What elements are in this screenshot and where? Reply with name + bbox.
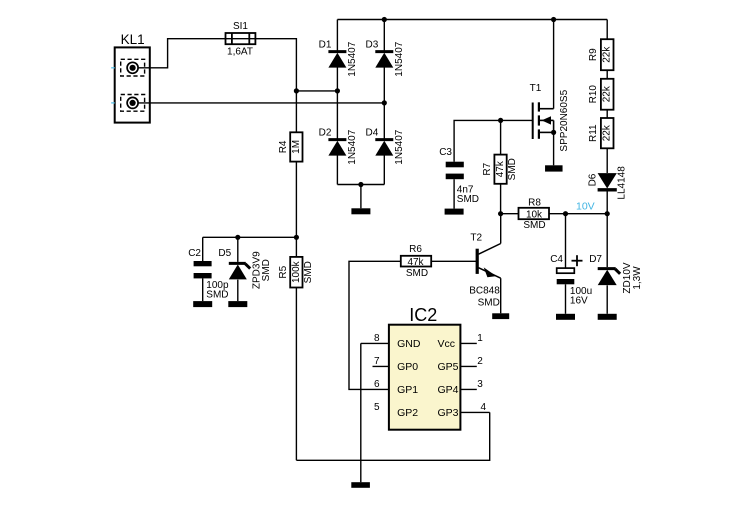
svg-text:2: 2 <box>477 356 483 367</box>
KL1 pin 1 pad <box>121 59 145 76</box>
mosfet T1 <box>532 103 534 140</box>
svg-text:1,6AT: 1,6AT <box>227 47 253 58</box>
wire bridge to ground <box>360 185 362 209</box>
svg-text:SMD: SMD <box>406 268 428 279</box>
KL1 pin 2 pad <box>121 95 145 112</box>
diode D3 <box>383 20 385 52</box>
wire node B to C2/D5 <box>203 236 297 238</box>
svg-text:Vcc: Vcc <box>438 338 456 350</box>
svg-text:R7: R7 <box>482 162 493 175</box>
svg-text:SMD: SMD <box>523 220 545 231</box>
wire node A to D1-D2 <box>296 90 337 92</box>
wire T1 drain to rail <box>553 20 555 109</box>
wire R4 to node B <box>295 162 297 238</box>
svg-text:SMD: SMD <box>457 194 479 205</box>
wire gate net <box>454 120 533 161</box>
svg-text:R6: R6 <box>409 244 422 255</box>
IC IC2 body <box>389 325 461 430</box>
ground bridge <box>351 208 370 214</box>
zener diode D7 <box>606 214 608 267</box>
svg-text:SMD: SMD <box>507 158 518 180</box>
capacitor C2 <box>202 237 204 261</box>
svg-text:5: 5 <box>374 402 380 413</box>
junction 10V/D6/D7 <box>605 211 610 216</box>
wire T1 source to ground <box>553 132 555 165</box>
resistor R6 <box>401 256 431 267</box>
svg-text:IC2: IC2 <box>409 305 437 325</box>
wire R6 to GP1 <box>349 261 401 389</box>
svg-text:GP4: GP4 <box>438 384 459 396</box>
svg-text:D4: D4 <box>366 128 379 139</box>
svg-text:KL1: KL1 <box>121 32 145 47</box>
svg-text:22k: 22k <box>602 46 613 63</box>
resistor R7 <box>500 120 502 154</box>
resistor R5 <box>295 237 297 257</box>
svg-text:1,3W: 1,3W <box>632 266 643 290</box>
diode D6 <box>598 188 617 191</box>
ground T2 emitter <box>492 313 509 319</box>
junction top rail / D3 <box>382 17 387 22</box>
svg-text:8: 8 <box>374 333 380 344</box>
svg-text:LL4148: LL4148 <box>617 166 628 200</box>
svg-text:6: 6 <box>374 379 380 390</box>
svg-text:1: 1 <box>477 333 483 344</box>
svg-text:T1: T1 <box>530 83 542 94</box>
svg-text:R4: R4 <box>278 140 289 153</box>
wire bridge bottom <box>337 184 384 186</box>
node B junction (R4/R5/C2) <box>294 235 299 240</box>
svg-text:R5: R5 <box>278 265 289 278</box>
svg-text:D3: D3 <box>366 40 379 51</box>
wire KL1 pin2 to bridge <box>138 102 384 104</box>
svg-text:SMD: SMD <box>303 261 314 283</box>
wire R10-R11 <box>606 110 608 118</box>
junction C4 top <box>563 211 568 216</box>
svg-text:1M: 1M <box>291 140 302 154</box>
wire KL1 pin1 to fuse <box>138 39 225 68</box>
junction bridge bottom <box>358 182 363 187</box>
IC2 pin 2 GP5 <box>460 365 476 367</box>
transistor T2 <box>476 249 479 274</box>
svg-text:BC848: BC848 <box>469 286 500 297</box>
svg-text:D5: D5 <box>218 248 231 259</box>
wire R7 to R8 <box>501 213 519 215</box>
svg-text:D2: D2 <box>319 128 332 139</box>
zener diode D5 <box>237 237 239 262</box>
diode D1 <box>336 20 338 52</box>
svg-text:T2: T2 <box>470 232 482 243</box>
ground C4 <box>556 314 575 320</box>
capacitor C3 <box>446 162 464 168</box>
svg-text:D1: D1 <box>319 40 332 51</box>
svg-text:R10: R10 <box>588 85 599 104</box>
svg-text:47k: 47k <box>495 160 506 177</box>
svg-text:GP5: GP5 <box>438 361 459 373</box>
ground C3 <box>445 209 464 215</box>
IC2 pin 4 GP3 <box>460 411 489 413</box>
wire T2 collector <box>500 214 502 244</box>
svg-text:C2: C2 <box>188 248 201 259</box>
IC2 pin 8 GND <box>361 342 389 344</box>
node A junction (fuse/R4/bridge) <box>294 88 299 93</box>
svg-text:10k: 10k <box>526 209 543 220</box>
junction D5 top <box>235 235 240 240</box>
svg-text:C3: C3 <box>439 147 452 158</box>
svg-text:R8: R8 <box>528 197 541 208</box>
resistor R10 <box>601 79 614 110</box>
wire R5 to GP3 net <box>295 288 297 461</box>
KL1 cyan pin ticks <box>111 67 115 69</box>
wire node A down to R4 <box>295 91 297 132</box>
svg-text:10V: 10V <box>576 201 595 213</box>
svg-text:GP3: GP3 <box>438 407 459 419</box>
ground T1 source <box>545 165 563 171</box>
wire R8 to 10V node <box>549 213 607 215</box>
svg-text:1N5407: 1N5407 <box>347 41 358 76</box>
junction D1-D2 midpoint <box>335 88 340 93</box>
svg-text:7: 7 <box>374 356 380 367</box>
diode D2 <box>336 91 338 139</box>
capacitor C4 <box>565 214 567 268</box>
diode D4 <box>383 103 385 139</box>
svg-text:1N5407: 1N5407 <box>394 41 405 76</box>
resistor R8 <box>519 208 550 219</box>
wire top rail <box>337 19 607 21</box>
svg-text:22k: 22k <box>602 85 613 102</box>
resistor R11 <box>601 118 614 148</box>
svg-text:GP0: GP0 <box>397 361 418 373</box>
wire R9-R10 <box>606 70 608 79</box>
svg-text:R9: R9 <box>588 48 599 61</box>
resistor R4 <box>290 132 302 161</box>
svg-text:SMD: SMD <box>478 298 500 309</box>
ground D5 <box>228 301 247 307</box>
junction top rail / T1 drain <box>551 17 556 22</box>
connector KL1 <box>115 47 150 122</box>
junction D3-D4 midpoint <box>382 100 387 105</box>
svg-text:4: 4 <box>481 402 487 413</box>
svg-text:100k: 100k <box>291 260 302 283</box>
svg-text:3: 3 <box>477 379 483 390</box>
junction gate/R7 <box>498 118 503 123</box>
IC2 pin 3 GP4 <box>460 388 476 390</box>
wire R11-D6 <box>606 148 608 173</box>
svg-text:22k: 22k <box>602 124 613 141</box>
wire IC2 GND to ground <box>360 343 362 482</box>
ground IC2 <box>351 482 370 488</box>
svg-text:SMD: SMD <box>206 290 228 301</box>
svg-text:1N5407: 1N5407 <box>394 129 405 164</box>
ground D7 <box>598 314 617 320</box>
svg-text:GP2: GP2 <box>397 407 418 419</box>
fuse SI1 <box>226 38 256 40</box>
svg-text:D7: D7 <box>589 254 602 265</box>
svg-text:GND: GND <box>397 338 421 350</box>
wire GP3 to R5 net <box>296 412 489 460</box>
svg-text:SMD: SMD <box>261 259 272 281</box>
ground C2 <box>193 301 212 307</box>
wire base net <box>431 260 477 262</box>
svg-text:C4: C4 <box>550 254 563 265</box>
wire rail to R9 <box>606 20 608 40</box>
resistor R9 <box>601 39 614 70</box>
svg-text:D6: D6 <box>587 173 598 186</box>
wire fuse to node A <box>255 39 296 91</box>
svg-text:1N5407: 1N5407 <box>347 129 358 164</box>
svg-text:GP1: GP1 <box>397 384 418 396</box>
svg-text:R11: R11 <box>588 124 599 142</box>
svg-text:SPP20N60S5: SPP20N60S5 <box>559 89 570 151</box>
IC2 pin 1 Vcc <box>460 342 476 344</box>
svg-text:16V: 16V <box>570 295 588 306</box>
svg-text:SI1: SI1 <box>233 21 248 32</box>
svg-text:47k: 47k <box>407 257 424 268</box>
IC2 pin 7 GP0 <box>373 365 389 367</box>
junction R7/R8/T2 collector <box>498 211 503 216</box>
